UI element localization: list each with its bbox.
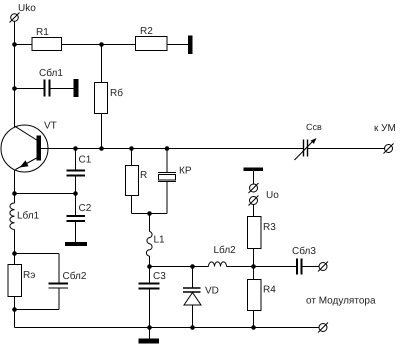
svg-text:R4: R4: [263, 285, 276, 296]
svg-text:Ссв: Ссв: [306, 122, 322, 132]
junction node L1/C3: [147, 264, 152, 269]
varicap diode VD anode triangle: [184, 293, 201, 306]
ground bar below C3: [139, 339, 160, 344]
svg-text:R2: R2: [140, 26, 153, 37]
svg-text:Rб: Rб: [110, 87, 123, 99]
wire node C to R2 left is same segment; wire R2 right to ground bar: [167, 44, 188, 46]
svg-text:R1: R1: [36, 27, 49, 38]
wire Rэ branch top: node to Сбл2 riser: [15, 253, 60, 255]
terminal Uko: [10, 13, 20, 23]
wire R/KP join line: [132, 213, 168, 215]
svg-text:Сбл1: Сбл1: [39, 67, 63, 79]
junction node Rэ bottom: [12, 307, 17, 312]
terminal output Сбл3: [318, 262, 328, 272]
wire node B down to VT collector circle: [14, 89, 16, 128]
svg-text:Lбл2: Lбл2: [213, 244, 236, 256]
wire node F down to L1 coil: [149, 214, 151, 232]
capacitor Сбл2 plates: [49, 283, 69, 285]
wire node G down to C3 top plate: [149, 267, 151, 284]
terminal Uo lower: [249, 196, 259, 206]
wire VT base line from base bar to Ссв left plate: [41, 148, 303, 150]
wire emitter node to C1/C2 node (horizontal): [15, 193, 76, 195]
wire node D to C2 top plate: [75, 194, 77, 216]
wire Ссв right plate to terminal к УМ: [308, 148, 385, 150]
wire Сбл2 riser down to top plate: [58, 254, 60, 284]
inductor L1 coil: [146, 232, 152, 257]
wire VT emitter down from circle: [14, 171, 16, 204]
wire node G to Lбл2 coil left: [150, 266, 209, 268]
resistor R2: [136, 37, 168, 51]
wire node E down to ground bus corner: [14, 310, 16, 328]
svg-text:C3: C3: [153, 271, 166, 282]
transistor VT base bar: [37, 136, 42, 161]
wire node H down to R4 top: [253, 267, 255, 280]
svg-text:R: R: [140, 170, 147, 181]
junction node R1-R2/Rб: [99, 42, 104, 47]
transistor VT collector lead: [15, 126, 40, 142]
quartz resonator KP: [158, 172, 176, 174]
junction node C1/C2: [73, 191, 78, 196]
junction node C3/bus: [147, 325, 152, 330]
resistor R4: [248, 280, 262, 311]
wire quartz bottom to R/KP join line: [166, 182, 168, 214]
wire C3 bottom plate down to ground bus: [149, 289, 151, 328]
capacitor Сбл3 plates: [296, 259, 298, 275]
ground bar below C2: [65, 242, 87, 246]
chassis bar after Сбл1: [74, 79, 79, 97]
capacitor C2 plates: [67, 215, 86, 217]
junction node base/KP: [165, 146, 170, 151]
junction node emitter wire left: [12, 191, 17, 196]
junction node base/Rб: [99, 146, 104, 151]
wire R branch: base line down to R top: [131, 149, 133, 166]
capacitor C1 plates: [67, 170, 86, 172]
svg-text:Сбл3: Сбл3: [292, 245, 316, 257]
wire Uo chassis bar stem to upper terminal: [253, 171, 255, 184]
variable capacitor Ссв plates: [303, 140, 305, 157]
wire Rэ bottom to node E: [14, 297, 16, 310]
wire node C down to Rб top: [101, 45, 103, 83]
variable capacitor Ссв arrow: [295, 140, 315, 160]
junction node Сбл1/left rail: [12, 86, 17, 91]
wire Rб bottom down to base line: [101, 114, 103, 149]
junction node R-KP/L1: [147, 211, 152, 216]
resistor R3: [248, 217, 262, 249]
svg-text:Uko: Uko: [18, 3, 36, 14]
resistor Rб: [95, 83, 108, 114]
junction node VD top: [190, 264, 195, 269]
wire KP branch: base line down to quartz top: [166, 149, 168, 173]
svg-text:от Модулятора: от Модулятора: [306, 296, 376, 307]
capacitor Сбл1 plates: [44, 80, 46, 97]
wire C1 bottom plate to node D: [75, 176, 77, 194]
terminal к УМ: [384, 144, 394, 154]
wire R1 right to Rб node C: [62, 44, 136, 46]
inductor Lбл1 coil: [10, 203, 15, 230]
wire terminal Uko down to node A: [14, 22, 16, 45]
svg-text:КР: КР: [179, 166, 192, 177]
terminal от Модулятора: [318, 323, 328, 333]
wire node A to R1 left: [15, 44, 33, 46]
svg-text:к УМ: к УМ: [374, 123, 396, 134]
svg-text:VT: VT: [44, 121, 57, 132]
wire R3 bottom to node H: [253, 249, 255, 267]
varicap diode VD cathode plates: [183, 287, 201, 289]
junction node Rэ top: [12, 251, 17, 256]
wire Rэ node top into resistor: [14, 254, 16, 265]
junction node base/R: [129, 146, 134, 151]
wire C2 bottom plate to ground bar: [75, 221, 77, 242]
wire L1 coil bottom to node G: [149, 256, 151, 267]
junction node R4/bus: [251, 325, 256, 330]
inductor Lбл2 coil: [209, 262, 227, 267]
wire R bottom to R/KP join line: [131, 196, 133, 214]
wire ground bus along bottom: [15, 327, 320, 329]
terminal Uo upper: [249, 183, 259, 193]
wire node A to node B (left rail): [14, 44, 16, 89]
capacitor C3 plates: [139, 283, 160, 285]
wire bottom joining Rэ and Сбл2: [15, 309, 60, 311]
transistor VT emitter arrowhead: [20, 160, 29, 167]
transistor VT emitter lead: [16, 157, 39, 170]
junction node base/C1: [73, 146, 78, 151]
chassis bar after R2: [188, 36, 193, 55]
svg-text:Uo: Uo: [266, 190, 279, 201]
wire Lбл1 bottom to node Rэ top: [14, 230, 16, 254]
resistor Rэ: [8, 265, 22, 297]
transistor VT circle: [1, 125, 48, 172]
wire R4 bottom to ground bus: [253, 311, 255, 328]
wire Сбл3 right plate to output terminal: [302, 266, 319, 268]
svg-text:C1: C1: [78, 155, 91, 166]
wire ground symbol stem below bus: [149, 328, 151, 339]
svg-text:Lбл1: Lбл1: [17, 210, 40, 222]
junction node R1/left rail: [12, 42, 17, 47]
wire node B to Сбл1 left plate: [15, 88, 45, 90]
svg-text:Сбл2: Сбл2: [62, 270, 86, 282]
svg-text:Rэ: Rэ: [23, 270, 35, 281]
wire VD anode to ground bus: [192, 306, 194, 328]
wire Сбл2 bottom plate to bottom joining wire: [58, 289, 60, 310]
resistor R1: [32, 38, 62, 51]
wire C1 branch: base line down to C1 top plate: [75, 149, 77, 171]
svg-text:C2: C2: [78, 203, 91, 214]
resistor R: [126, 166, 139, 196]
wire VD branch: node to varicap top: [192, 267, 194, 288]
svg-text:R3: R3: [263, 222, 276, 233]
wire Сбл1 right plate to chassis bar: [50, 88, 74, 90]
junction node VD/bus: [190, 325, 195, 330]
wire lower Uo terminal down to R3 top: [253, 205, 255, 217]
svg-text:VD: VD: [205, 286, 219, 297]
junction node R3/R4/Сбл3: [251, 264, 256, 269]
wire Lбл2 coil right to node H / Сбл3: [227, 266, 297, 268]
chassis bar above Uo terminals: [244, 168, 264, 172]
svg-text:L1: L1: [153, 235, 165, 246]
